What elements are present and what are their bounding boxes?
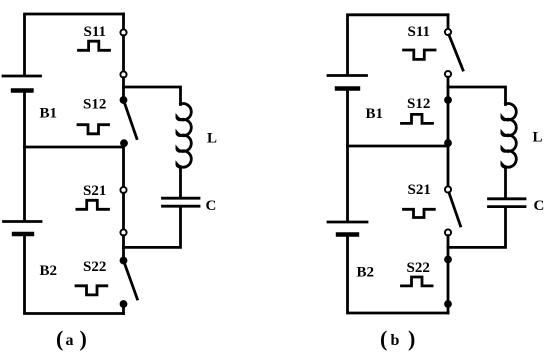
- svg-text:(: (: [56, 326, 63, 351]
- wire: branch top segment (b): [447, 15, 450, 29]
- svg-text:S21: S21: [408, 182, 431, 198]
- wire: inductor to capacitor (a): [179, 167, 182, 197]
- svg-text:S22: S22: [83, 259, 106, 275]
- pulse icon for S12 (negative pulse): [78, 125, 109, 134]
- svg-text:B2: B2: [357, 265, 375, 281]
- switch S12 (closed) (b): [444, 96, 452, 147]
- svg-text:S22: S22: [407, 260, 430, 276]
- wire: S21 to S22 with output tap (b): [447, 236, 450, 260]
- switch S11 (open) (b): [445, 29, 463, 77]
- switch S12 (open): [120, 96, 137, 147]
- battery B2: [4, 222, 42, 235]
- wire: tap to inductor top (a): [124, 87, 181, 105]
- pulse icon for S22 (negative pulse): [76, 286, 107, 295]
- wire: middle rail (a) between batteries to branch junction: [25, 146, 124, 149]
- battery B1 (b): [328, 76, 367, 89]
- capacitor C (a): [163, 198, 200, 206]
- inductor L (b): [502, 104, 516, 168]
- wire: B2- down and bottom rail (a): [25, 234, 124, 314]
- switch S21 (open) (b): [445, 186, 461, 235]
- wire: branch top segment (a): [122, 14, 125, 29]
- svg-text:): ): [408, 326, 415, 351]
- svg-text:S11: S11: [408, 24, 431, 40]
- switch S21 (closed): [120, 187, 126, 236]
- svg-text:C: C: [534, 198, 545, 214]
- svg-text:L: L: [533, 129, 543, 145]
- wire: S11 to S12 with output tap (a): [122, 78, 125, 100]
- wire: B2- down and bottom rail (b): [348, 235, 449, 314]
- wire: tap to capacitor bottom (a): [124, 208, 181, 248]
- svg-text:a: a: [66, 332, 74, 349]
- wire: tap to capacitor bottom (b): [448, 208, 506, 248]
- switch S11 (closed): [120, 29, 126, 77]
- wire: S11 to S12 with output tap (b): [447, 77, 450, 100]
- wire: S21 to S22 with output tap (a): [122, 236, 125, 261]
- inductor L (a): [177, 104, 191, 168]
- wire: middle rail (b) between batteries to branch junction: [348, 145, 449, 148]
- wire: mid junction down to S21 (a): [122, 143, 125, 187]
- svg-text:(: (: [380, 326, 387, 351]
- svg-text:b: b: [391, 332, 400, 349]
- battery B1: [3, 76, 41, 91]
- svg-text:B1: B1: [366, 106, 384, 122]
- wire: B1- down to B2+: [23, 91, 26, 221]
- pulse icon for S21 (negative pulse) (b): [404, 209, 435, 217]
- wire: B1- down to B2+ (b): [346, 89, 349, 221]
- pulse icon for S11 (positive pulse): [79, 41, 110, 50]
- svg-text:B2: B2: [40, 263, 58, 279]
- svg-text:C: C: [206, 198, 217, 214]
- wire: mid junction down to S21 (b): [447, 143, 450, 186]
- svg-text:): ): [80, 326, 87, 351]
- wire: tap to inductor top (b): [448, 87, 506, 105]
- svg-text:S11: S11: [84, 24, 107, 40]
- switch S22 (closed) (b): [444, 256, 452, 313]
- svg-text:S12: S12: [83, 96, 106, 112]
- battery B2 (b): [328, 222, 367, 235]
- wire: top rail (b) from B1+ to switch branch: [348, 15, 449, 74]
- pulse icon for S22 (positive pulse) (b): [402, 277, 433, 286]
- capacitor C (b): [489, 199, 526, 207]
- svg-text:L: L: [207, 130, 217, 146]
- svg-text:B1: B1: [40, 106, 58, 122]
- switch S22 (open): [120, 257, 138, 314]
- svg-text:S12: S12: [407, 96, 430, 112]
- wire: inductor to capacitor (b): [504, 167, 507, 197]
- pulse icon for S12 (positive pulse) (b): [402, 114, 433, 123]
- wire: top rail (a) from B1+ to switch branch: [25, 14, 124, 75]
- svg-text:S21: S21: [83, 183, 106, 199]
- pulse icon for S21 (positive pulse): [77, 200, 109, 209]
- pulse icon for S11 (negative pulse) (b): [404, 50, 435, 59]
